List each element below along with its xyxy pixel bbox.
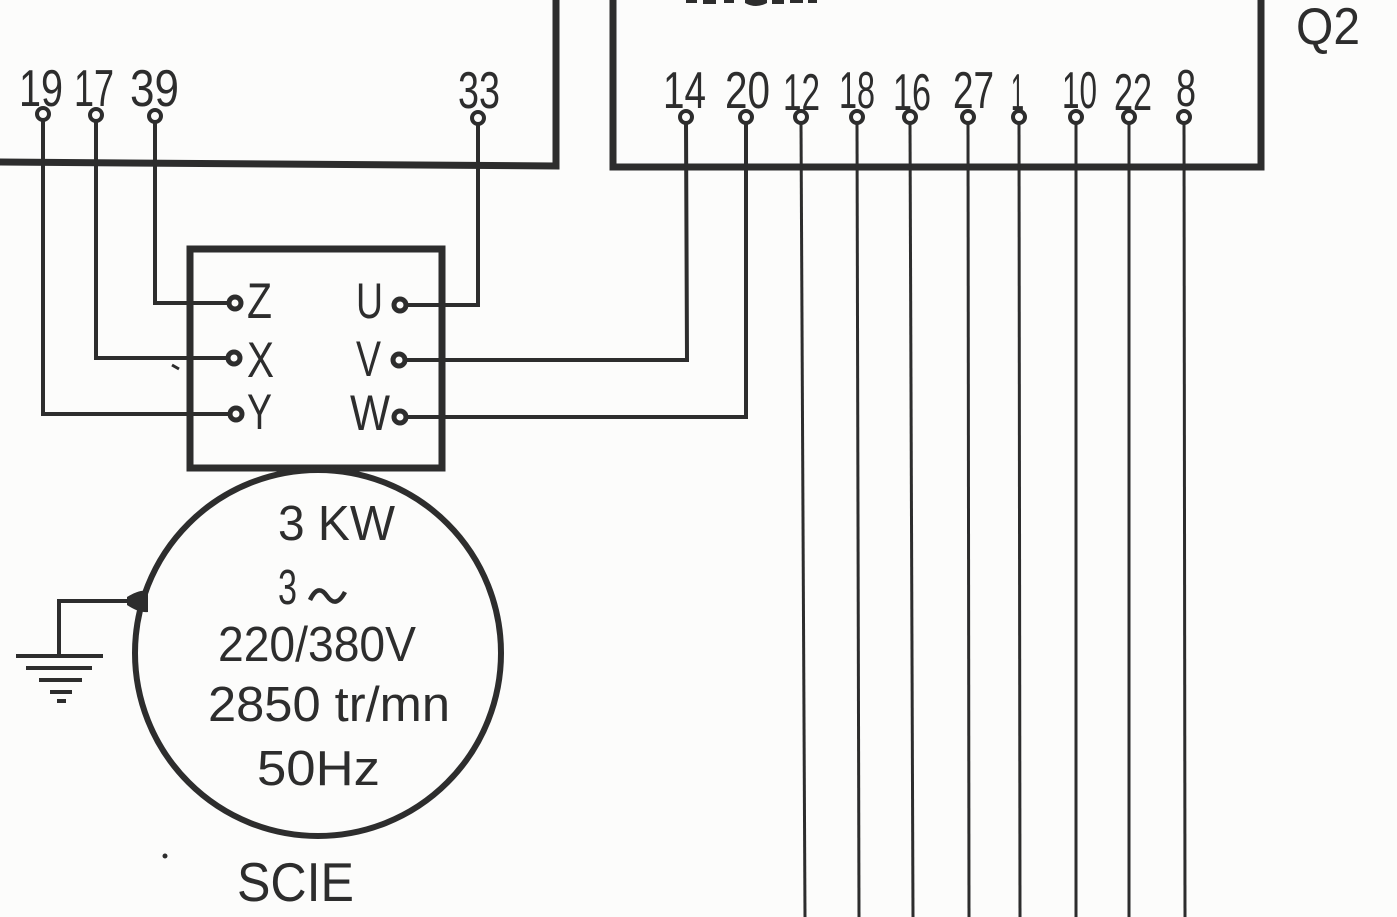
svg-text:33: 33 [458, 62, 500, 120]
motor terminal V [393, 354, 405, 366]
motor terminal W [394, 411, 406, 423]
terminal 19 [37, 108, 49, 120]
svg-text:3: 3 [278, 561, 297, 615]
terminal 16 [904, 111, 916, 123]
svg-text:16: 16 [893, 64, 931, 122]
svg-text:14: 14 [663, 62, 706, 120]
terminal 1 [1013, 111, 1025, 123]
svg-text:50Hz: 50Hz [257, 742, 380, 796]
wire terminal 39 to motor terminal Z [155, 122, 227, 303]
terminal 10 [1070, 111, 1082, 123]
motor M (saw motor) [135, 470, 501, 836]
sine symbol [310, 590, 345, 601]
svg-text:Z: Z [247, 273, 272, 329]
wire terminal 20 to motor terminal W [408, 122, 746, 417]
ink dot left of SCIE [163, 854, 168, 859]
terminal 12 [795, 111, 807, 123]
ground symbol [16, 656, 103, 701]
svg-text:19: 19 [19, 60, 63, 118]
svg-text:8: 8 [1176, 60, 1196, 118]
wire motor to ground [59, 601, 143, 655]
svg-text:18: 18 [839, 62, 875, 120]
box Q2 [613, 0, 1261, 167]
svg-text:2850 tr/mn: 2850 tr/mn [208, 678, 450, 732]
motor terminal X [228, 352, 240, 364]
terminal 17 [90, 109, 102, 121]
terminal 33 [472, 112, 484, 124]
terminal 14 [680, 111, 692, 123]
svg-text:3 KW: 3 KW [278, 497, 396, 551]
wire terminal 17 to motor terminal X [96, 121, 226, 358]
svg-text:X: X [247, 332, 274, 388]
wire from terminal 27 down [968, 122, 969, 917]
wire from terminal 10 down [1075, 122, 1078, 917]
junction dot at motor frame [127, 591, 148, 613]
svg-text:22: 22 [1114, 64, 1152, 122]
motor terminal Z [229, 297, 241, 309]
svg-text:U: U [356, 273, 383, 329]
svg-text:17: 17 [74, 60, 114, 118]
svg-text:V: V [356, 331, 381, 387]
motor terminal box [190, 249, 442, 468]
svg-text:20: 20 [725, 62, 770, 120]
wire from terminal 16 down [910, 122, 913, 917]
svg-text:27: 27 [953, 62, 994, 120]
svg-text:220/380V: 220/380V [218, 618, 416, 672]
wire from terminal 18 down [857, 122, 859, 917]
ink speck left of terminal box [172, 365, 179, 369]
terminal 22 [1123, 111, 1135, 123]
wire terminal 19 to motor terminal Y [43, 120, 228, 414]
wire from terminal 8 down [1184, 122, 1185, 917]
svg-text:Y: Y [247, 384, 272, 440]
wire terminal 14 to motor terminal V [407, 122, 687, 360]
terminal 8 [1178, 111, 1190, 123]
terminal 39 [149, 110, 161, 122]
svg-text:W: W [350, 385, 391, 441]
svg-text:39: 39 [130, 60, 179, 118]
svg-text:1: 1 [1011, 64, 1024, 122]
svg-text:Q2: Q2 [1296, 0, 1360, 56]
terminal 18 [851, 111, 863, 123]
svg-text:12: 12 [783, 64, 820, 122]
terminal 20 [740, 111, 752, 123]
svg-text:SCIE: SCIE [237, 851, 354, 913]
wire terminal 33 to motor terminal U [408, 123, 478, 305]
cut-off title text at top of Q2 [686, 0, 817, 6]
left control box (cut off at top-left) [0, 0, 556, 166]
terminal 27 [962, 111, 974, 123]
svg-text:10: 10 [1062, 62, 1097, 120]
wire from terminal 12 down [801, 122, 805, 917]
wire from terminal 1 down [1019, 122, 1020, 917]
motor terminal Y [230, 408, 242, 420]
motor terminal U [394, 299, 406, 311]
wire from terminal 22 down [1128, 122, 1131, 917]
